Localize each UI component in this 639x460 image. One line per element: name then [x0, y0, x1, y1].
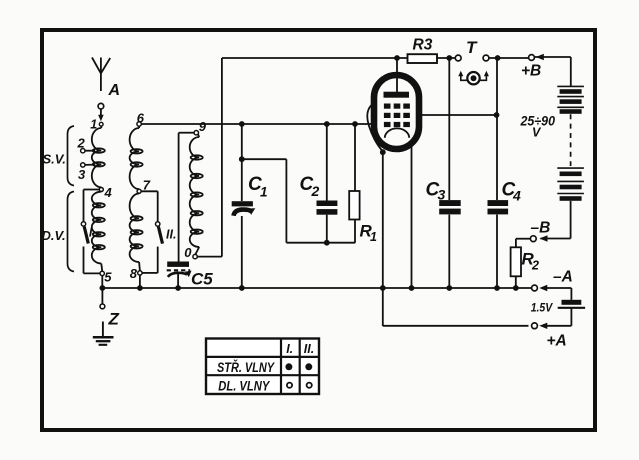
svg-text:4: 4 [512, 188, 521, 204]
svg-text:1.5V: 1.5V [531, 301, 553, 315]
svg-text:T: T [466, 38, 478, 57]
svg-text:II.: II. [304, 342, 314, 356]
svg-text:9: 9 [199, 119, 207, 134]
svg-text:6: 6 [137, 110, 145, 125]
svg-text:A: A [108, 82, 121, 99]
svg-text:II.: II. [166, 227, 176, 241]
svg-text:I.: I. [286, 342, 293, 356]
svg-text:2: 2 [77, 135, 86, 150]
svg-text:–B: –B [531, 220, 551, 237]
svg-text:0: 0 [184, 245, 192, 260]
svg-text:–A: –A [553, 269, 573, 286]
svg-text:D.V.: D.V. [42, 228, 66, 243]
svg-text:S.V.: S.V. [43, 152, 66, 167]
svg-text:+A: +A [547, 333, 567, 350]
svg-text:7: 7 [143, 177, 151, 192]
svg-text:8: 8 [130, 266, 138, 281]
svg-text:C5: C5 [191, 270, 213, 289]
svg-text:2: 2 [531, 259, 539, 273]
svg-text:R3: R3 [413, 37, 433, 54]
svg-text:STŘ. VLNY: STŘ. VLNY [217, 360, 276, 375]
svg-text:I.: I. [89, 225, 96, 239]
svg-text:1: 1 [370, 230, 377, 244]
svg-text:4: 4 [104, 185, 113, 200]
svg-text:+B: +B [521, 63, 541, 80]
svg-text:3: 3 [78, 167, 86, 182]
svg-text:1: 1 [260, 185, 268, 200]
svg-text:3: 3 [438, 187, 446, 203]
svg-text:Z: Z [108, 310, 120, 329]
svg-text:DL. VLNY: DL. VLNY [218, 379, 271, 394]
svg-text:5: 5 [104, 269, 112, 284]
svg-text:2: 2 [311, 183, 320, 199]
